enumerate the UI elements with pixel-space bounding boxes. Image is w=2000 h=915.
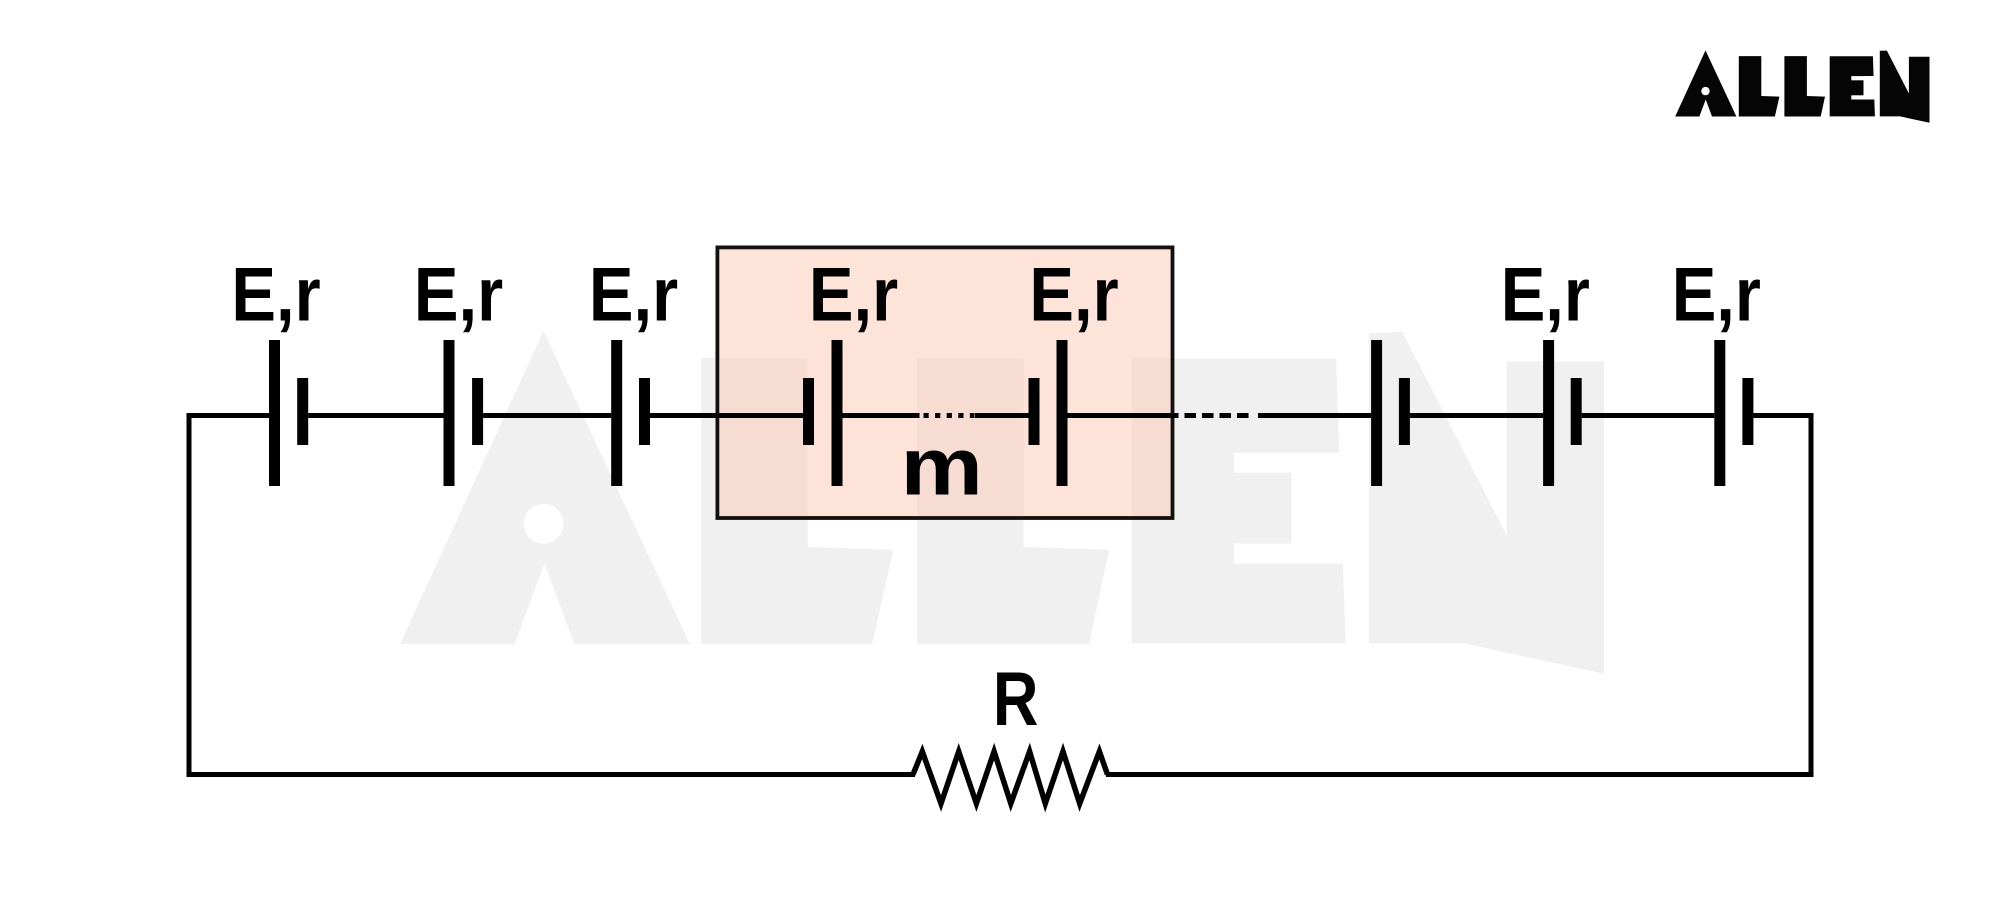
svg-text:E,r: E,r [1672,253,1761,338]
battery cell B5 (E,r) inside box [1029,378,1040,445]
svg-text:E,r: E,r [809,253,898,338]
battery cell B8 (E,r) [1714,340,1725,486]
wire B4 to dashed gap [843,413,920,418]
battery cell B6 [1371,340,1382,486]
svg-text:R: R [993,656,1039,741]
wire left vertical [187,413,192,777]
svg-text:E,r: E,r [1029,253,1118,338]
wire bottom: resistor to right corner [1106,772,1814,777]
wire B1 to B2 [308,413,443,418]
wire top: left corner to cell B1 [187,413,270,418]
wire B8 to right corner [1753,413,1813,418]
dashed wire between B4 and B5 [924,413,975,418]
wire B7 to B8 [1582,413,1715,418]
wire bottom: left corner to resistor [187,772,916,777]
battery cell B4 (E,r) inside box [803,378,814,445]
svg-text:E,r: E,r [414,253,503,338]
wire B5 to box edge [1068,413,1175,418]
resistor R [913,752,1108,804]
battery cell B7 (E,r) [1543,340,1554,486]
wire dashes to B6 [1258,413,1371,418]
wire B6 to B7 [1410,413,1543,418]
dashed wire between box and B6 [1167,413,1249,418]
watermark ALLEN [400,331,1604,674]
wire dashed gap to B5 [975,413,1029,418]
svg-text:m: m [901,420,983,512]
battery cell B2 (E,r) [444,340,455,486]
wire B3 to B4 [650,413,803,418]
ALLEN logo [1675,50,1929,122]
wire B2 to B3 [483,413,611,418]
battery cell B3 (E,r) [611,340,622,486]
highlight box around m-cell group [717,247,1172,518]
svg-text:E,r: E,r [231,253,320,338]
wire right vertical [1809,413,1814,777]
battery cell B1 (E,r) [269,340,280,486]
svg-text:E,r: E,r [1501,253,1590,338]
svg-text:E,r: E,r [589,253,678,338]
